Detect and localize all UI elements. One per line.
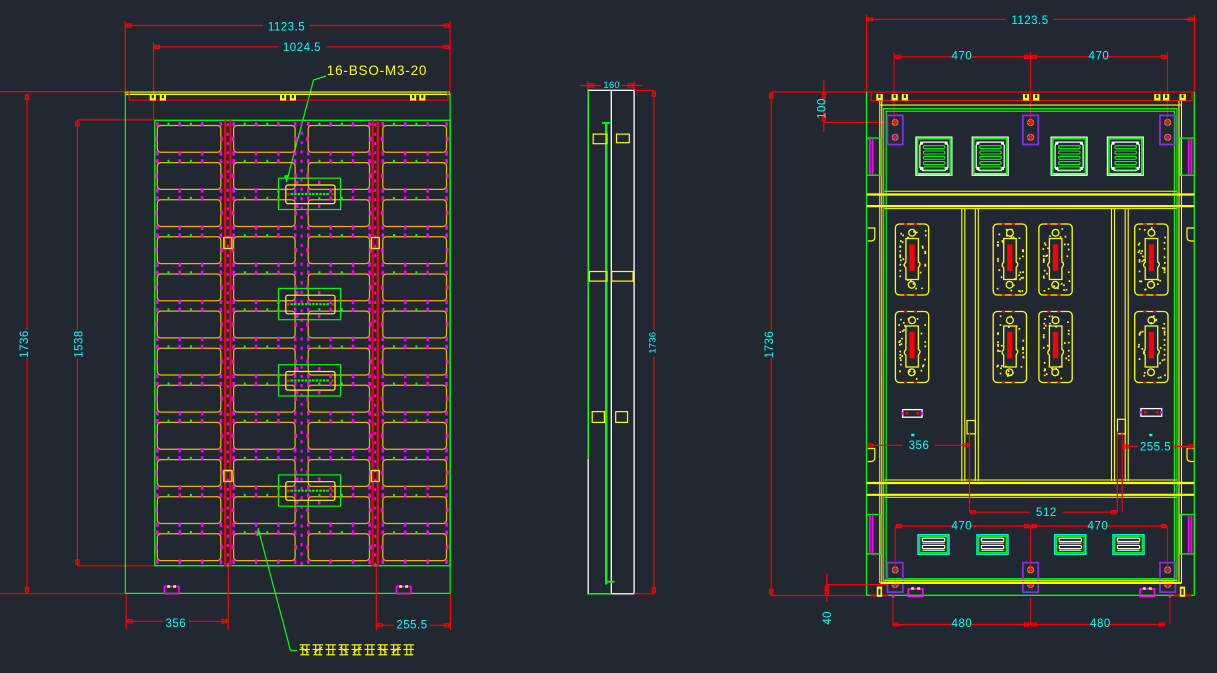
leader note weld reinforcement [257,528,414,655]
dimension 255.5 (left view bottom) [376,567,450,632]
svg-text:356: 356 [165,618,186,630]
hinges (purple with fastener dots) [887,115,1175,592]
dimension 356 (right view) [867,432,970,513]
svg-text:470: 470 [951,50,972,62]
right view top bar [771,92,1194,101]
side tabs with magenta lines [867,138,882,175]
dimension 160 (side view top) [580,80,642,91]
left view top bar [126,92,451,100]
vertical red reinforcement strip 1 [225,120,230,566]
label 16-BSO-M3-20 with leader [284,63,427,182]
bottom rail [881,580,1182,583]
svg-text:1123.5: 1123.5 [268,21,305,33]
divider clips [967,419,1126,434]
fastener detail boxes (16-BSO-M3-20) [279,178,341,506]
vertical red reinforcement strip 2 [373,120,378,566]
dimension 512 [970,432,1118,520]
dimension 1736 (right view, vertical) [764,92,876,596]
magenta dot column between col2 and col3 [301,122,303,565]
side view inner green rail [602,122,615,584]
dimension 1024.5 (left view) [154,42,451,120]
dimension 1123.5 (right view top) [867,15,1195,92]
side view body outline [588,90,634,594]
svg-text:40: 40 [822,611,834,625]
bottom feet and cable clips [871,587,1192,598]
horizontal band upper [867,191,1195,208]
dimension 1123.5 (left view top) [125,21,450,92]
svg-text:1736: 1736 [19,330,31,358]
dimension 255.5 (right view) [1122,432,1194,513]
horizontal band lower [867,480,1195,497]
side view yellow clips [589,134,633,422]
svg-text:480: 480 [952,618,973,630]
dimensions 470 / 470 (right view top) [894,50,1167,126]
svg-text:470: 470 [951,521,972,533]
svg-text:356: 356 [909,440,930,452]
svg-text:1736: 1736 [648,332,659,354]
dimensions 470 / 470 (right view lower) [893,521,1170,625]
dimension 40 (right view, vertical) [822,573,888,625]
dimension 356 (left view bottom) [126,567,228,630]
module grid cells (12 rows x 4 cols) [157,126,446,561]
left view cabinet outline [125,92,450,594]
dimension 1538 (left view, vertical) [74,120,155,566]
left view module grid border [155,120,450,565]
svg-text:160: 160 [603,80,619,91]
svg-text:1538: 1538 [74,330,86,358]
svg-text:1123.5: 1123.5 [1011,15,1048,27]
svg-text:1736: 1736 [764,331,776,359]
magenta fastener marks in grid [155,122,448,564]
bottom louver vents [918,535,1144,554]
dimensions 480 / 480 (right view bottom) [892,618,1165,630]
dimension 1736 (side view, vertical) [634,90,659,594]
door divider mullions [962,209,1128,481]
right view cabinet outline [867,92,1195,595]
lock escutcheons [895,223,1168,383]
dimension 100 (right view, vertical) [817,80,888,133]
svg-text:480: 480 [1090,618,1111,630]
svg-text:470: 470 [1088,521,1109,533]
yellow clips on strips [224,238,379,482]
svg-text:255.5: 255.5 [1140,441,1171,453]
svg-text:16-BSO-M3-20: 16-BSO-M3-20 [327,63,427,78]
corner brackets [868,228,1194,462]
right view inner yellow wall lines [880,101,1182,583]
door latches (white) [901,409,1163,418]
dimension 1736 (left view, vertical) [0,92,125,594]
cyan center marks [911,434,914,436]
svg-text:255.5: 255.5 [396,619,427,631]
top louver vents [916,137,1144,175]
right view door panel (green double rect) [884,109,1177,582]
svg-text:1024.5: 1024.5 [283,42,321,54]
left view bottom cable clips [165,585,412,594]
svg-text:512: 512 [1036,507,1057,519]
svg-text:470: 470 [1089,50,1110,62]
svg-text:100: 100 [817,98,829,119]
